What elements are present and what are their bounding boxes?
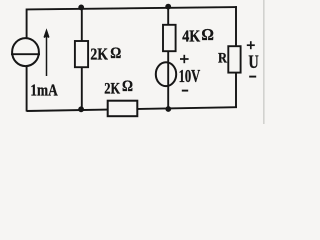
resistor R box bbox=[228, 46, 240, 72]
svg-text:R: R bbox=[218, 51, 227, 67]
wire branch R1 bbox=[81, 9, 83, 110]
current direction arrow bbox=[44, 31, 49, 76]
wire branch middle bbox=[167, 8, 169, 109]
resistor R1 2K box bbox=[75, 41, 88, 67]
current source bar bbox=[11, 53, 40, 55]
junction node top-mid bbox=[165, 4, 171, 10]
junction node top-left bbox=[78, 5, 84, 11]
svg-text:4K: 4K bbox=[182, 27, 200, 46]
wire left bbox=[26, 9, 28, 112]
minus sign U bbox=[249, 76, 256, 78]
svg-text:Ω: Ω bbox=[201, 25, 214, 44]
svg-text:10V: 10V bbox=[179, 66, 201, 86]
junction node bottom-left bbox=[78, 106, 84, 112]
resistor R2 2K horizontal box bbox=[108, 101, 138, 117]
wire top bbox=[27, 7, 237, 9]
plus sign U bbox=[247, 41, 255, 49]
svg-text:Ω: Ω bbox=[110, 45, 121, 62]
wire right bbox=[235, 6, 237, 108]
svg-text:1mA: 1mA bbox=[30, 81, 58, 100]
plus sign 10V bbox=[180, 55, 189, 63]
current source Is circle bbox=[12, 38, 39, 66]
svg-text:Ω: Ω bbox=[122, 78, 133, 95]
wire bottom bbox=[27, 107, 237, 111]
minus sign 10V bbox=[182, 90, 188, 92]
svg-text:2K: 2K bbox=[104, 80, 120, 97]
svg-text:2K: 2K bbox=[90, 45, 108, 64]
resistor R3 4K box bbox=[163, 25, 176, 51]
voltage source 10V circle bbox=[156, 62, 176, 86]
svg-text:U: U bbox=[248, 52, 259, 73]
junction node bottom-mid bbox=[165, 106, 171, 112]
